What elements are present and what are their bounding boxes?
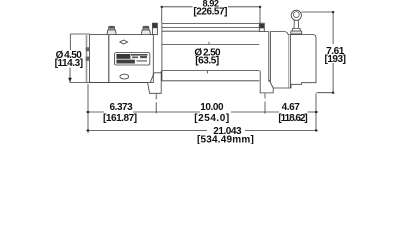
- dimension dia 4.50 left: [68, 34, 89, 82]
- svg-text:[118.62]: [118.62]: [278, 113, 307, 124]
- right drum support foot: [260, 71, 273, 93]
- clutch lever knob: [291, 10, 301, 20]
- dimension 7.61 right height: [301, 11, 334, 94]
- bottom dimension line row 2 total length: [86, 129, 318, 131]
- svg-text:[226.57]: [226.57]: [193, 6, 227, 17]
- drum left flange: [161, 24, 163, 81]
- left extension line for bottom dimensions: [87, 84, 89, 133]
- winch bottom edge: [70, 82, 148, 84]
- left mounting foot: [148, 71, 162, 94]
- left tie-bar clamp: [152, 23, 157, 34]
- lower tie bar under drum: [162, 80, 259, 82]
- WARN label plate: [115, 53, 150, 65]
- dimension 8.92 / 226.57 top: [161, 6, 261, 23]
- svg-text:[534.49mm]: [534.49mm]: [197, 134, 254, 144]
- winch motor housing left end cap: [86, 35, 109, 83]
- bottom dimension line row 1: [86, 111, 318, 113]
- svg-text:4.67: 4.67: [282, 102, 301, 113]
- svg-text:[193]: [193]: [324, 54, 345, 65]
- left foot centerline (dashed): [155, 94, 157, 113]
- drain oval on box bottom: [120, 74, 129, 79]
- right tie-bar clamp: [259, 23, 264, 31]
- motor bolt 2: [141, 26, 150, 34]
- dimension dia 2.50 drum: [208, 42, 210, 74]
- winch control box body: [109, 35, 154, 83]
- svg-text:[114.3]: [114.3]: [55, 58, 83, 69]
- drum barrel: [162, 44, 259, 70]
- svg-text:10.00: 10.00: [200, 102, 224, 113]
- gear housing: [273, 35, 316, 88]
- svg-text:[63.5]: [63.5]: [195, 56, 219, 67]
- svg-text:[161.87]: [161.87]: [103, 113, 137, 124]
- motor bolt 1: [107, 26, 116, 34]
- upper tie bars over drum: [162, 24, 259, 32]
- right extension line for bottom dimensions: [315, 94, 317, 132]
- vent diamond on box top: [120, 40, 128, 44]
- right support plate: [264, 32, 288, 89]
- svg-text:6.373: 6.373: [110, 102, 134, 113]
- svg-text:[254.0]: [254.0]: [194, 113, 230, 124]
- right foot centerline (dashed): [264, 94, 266, 114]
- clutch lever stem: [291, 20, 302, 34]
